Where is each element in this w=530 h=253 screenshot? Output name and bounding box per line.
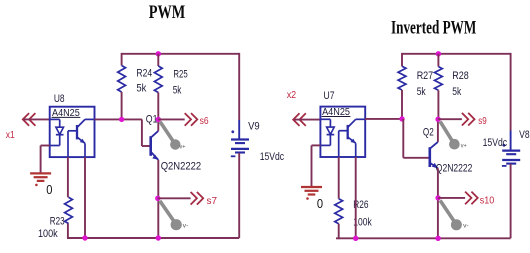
svg-text:100k: 100k <box>38 228 58 240</box>
wire U8 cathode down <box>40 146 42 174</box>
wire base drop down <box>141 119 143 146</box>
node U7 emitter rail junction <box>353 236 358 241</box>
svg-text:x2: x2 <box>287 89 297 101</box>
port s6 chevron <box>185 113 198 126</box>
wire bottom rail left circuit <box>67 237 239 239</box>
wire U8 collector to base drop <box>95 118 142 120</box>
battery V8 <box>502 149 520 151</box>
label A4N25 underline right <box>322 116 351 118</box>
transistor Q1 <box>149 136 152 156</box>
svg-text:v+: v+ <box>461 143 467 149</box>
node Q1 collector junction <box>156 117 161 122</box>
wire x2 to U7 <box>295 119 321 121</box>
svg-text:PWM: PWM <box>149 2 186 23</box>
wire R24 top <box>121 53 123 66</box>
label V9 plus <box>231 130 234 133</box>
node R24 junction <box>119 117 124 122</box>
wire R27 top <box>401 53 403 66</box>
optocoupler U7 led <box>320 118 330 120</box>
svg-text:5k: 5k <box>173 84 182 96</box>
svg-text:15Vdc: 15Vdc <box>260 151 285 163</box>
svg-text:0: 0 <box>317 197 323 211</box>
node top rail junction <box>156 51 161 56</box>
wire Q1 collector stub <box>157 119 159 130</box>
node top rail junction right <box>436 51 441 56</box>
wire V9 lead bottom <box>238 153 240 238</box>
resistor R26 <box>335 199 343 224</box>
wire base into Q2 <box>403 157 430 159</box>
resistor R24 <box>118 66 126 93</box>
resistor R25 <box>154 66 162 93</box>
svg-text:s9: s9 <box>478 115 487 127</box>
svg-text:v+: v+ <box>180 144 186 150</box>
node s7 junction <box>155 196 160 201</box>
svg-text:0: 0 <box>46 183 52 197</box>
wire R25 bottom <box>157 93 159 120</box>
optocoupler U8 box <box>50 107 95 157</box>
port s7 chevron <box>191 192 204 205</box>
svg-text:5k: 5k <box>136 83 147 95</box>
wire R27 bottom <box>401 90 403 119</box>
node s10 junction <box>435 195 440 200</box>
svg-text:R24: R24 <box>136 67 152 79</box>
probe V+ at Q2 collector <box>440 121 452 140</box>
label V8 minus <box>502 165 507 167</box>
wire to s10 <box>438 197 465 199</box>
optocoupler U8 phototransistor <box>76 125 78 139</box>
wire V9 lead top blue <box>238 120 240 139</box>
wire U8 cathode out <box>41 145 50 147</box>
svg-text:R23: R23 <box>50 215 65 227</box>
wire U7 cathode out <box>312 144 321 146</box>
wire R25 top <box>157 54 159 66</box>
label V8 plus <box>503 144 506 147</box>
svg-text:V8: V8 <box>519 129 530 141</box>
svg-text:5k: 5k <box>452 86 462 98</box>
ground 0 left <box>30 172 51 174</box>
wire to s9 <box>438 118 462 120</box>
wire U8 base down <box>67 157 69 197</box>
svg-text:U8: U8 <box>54 93 65 105</box>
wire V8 lead bottom <box>510 164 512 238</box>
ground 0 right dot <box>306 197 309 200</box>
node Q2 collector junction <box>435 117 440 122</box>
resistor R28 <box>435 67 443 91</box>
probe V- at Q2 emitter <box>440 200 454 221</box>
ground 0 right <box>301 186 322 188</box>
svg-text:5k: 5k <box>417 86 427 98</box>
resistor R23 <box>65 197 73 223</box>
svg-text:U7: U7 <box>324 90 335 102</box>
battery V9 <box>231 138 249 140</box>
ground 0 left dot <box>35 184 38 187</box>
label A4N25 underline <box>52 116 81 118</box>
label V9 minus <box>231 155 236 157</box>
optocoupler U7 box <box>320 107 365 157</box>
optocoupler U7 phototransistor <box>347 125 349 139</box>
wire U8 emitter down <box>84 157 86 238</box>
wire U7 cathode down <box>311 145 313 187</box>
svg-text:R25: R25 <box>173 69 187 81</box>
port s10 chevron <box>465 192 478 205</box>
svg-text:v-: v- <box>183 223 189 229</box>
wire Q2 collector stub <box>437 119 439 142</box>
node R27 junction <box>399 116 404 121</box>
node Q2 emitter rail junction <box>435 236 440 241</box>
wire R28 bottom <box>437 90 439 119</box>
svg-text:s10: s10 <box>480 195 495 207</box>
port s9 chevron <box>462 113 475 126</box>
wire R24 bottom <box>121 92 123 119</box>
wire top rail left <box>122 53 240 55</box>
node Q1 emitter rail junction <box>156 235 161 240</box>
wire top rail right <box>402 53 511 55</box>
svg-text:Q2N2222: Q2N2222 <box>436 162 473 174</box>
svg-text:V9: V9 <box>248 120 260 132</box>
svg-text:s6: s6 <box>200 115 209 127</box>
svg-text:Q2N2222: Q2N2222 <box>161 160 202 172</box>
svg-text:15Vdc: 15Vdc <box>483 137 508 149</box>
wire Q2 base drop down <box>402 119 404 158</box>
wire R26 bottom <box>338 224 340 240</box>
probe V- at Q1 emitter <box>160 201 174 222</box>
port x2 chevron <box>293 113 306 126</box>
wire V8 lead top blue <box>510 131 512 151</box>
wire V8 branch upper <box>510 53 512 131</box>
wire U7 emitter down <box>355 157 357 238</box>
wire to s7 <box>158 197 191 199</box>
wire R28 top <box>437 54 439 67</box>
svg-text:Inverted PWM: Inverted PWM <box>391 17 476 38</box>
transistor Q2 <box>428 147 431 167</box>
port x1 chevron <box>23 113 36 126</box>
svg-text:v-: v- <box>463 223 469 229</box>
wire R23 bottom <box>67 224 69 239</box>
wire V9 branch upper <box>238 53 240 120</box>
probe V+ at Q1 collector <box>160 122 173 142</box>
wire base into Q1 <box>142 145 151 147</box>
svg-text:Q2: Q2 <box>423 127 434 139</box>
wire bottom rail right circuit <box>336 237 511 239</box>
svg-text:x1: x1 <box>6 129 15 141</box>
resistor R27 <box>398 66 406 90</box>
svg-text:s7: s7 <box>207 195 218 207</box>
node U8 emitter rail junction <box>82 235 87 240</box>
wire x1 to U8 <box>24 118 50 120</box>
wire U7 collector to drop <box>365 118 403 120</box>
optocoupler U8 led <box>50 118 60 120</box>
wire Q2 emitter down <box>437 168 439 238</box>
wire Q1 emitter down <box>157 160 159 238</box>
wire to s6 <box>158 118 184 120</box>
svg-text:R28: R28 <box>452 70 469 82</box>
svg-text:R27: R27 <box>417 70 434 82</box>
wire U7 base down <box>338 157 340 199</box>
